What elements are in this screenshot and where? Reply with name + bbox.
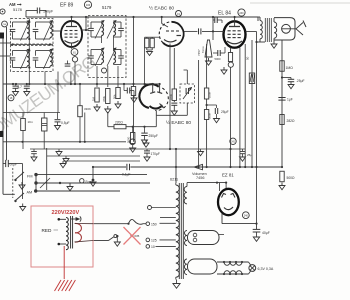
svg-text:6,3V 0,3A: 6,3V 0,3A xyxy=(258,267,274,271)
svg-text:170μF: 170μF xyxy=(151,152,160,156)
svg-text:RED: RED xyxy=(42,228,53,233)
svg-text:7457: 7457 xyxy=(197,49,201,56)
svg-text:250μF: 250μF xyxy=(149,134,158,138)
svg-text:FM: FM xyxy=(27,175,32,179)
svg-text:240: 240 xyxy=(244,215,249,218)
svg-text:470k: 470k xyxy=(169,93,173,100)
svg-text:1μF: 1μF xyxy=(287,98,293,102)
svg-text:6211: 6211 xyxy=(170,178,178,182)
svg-text:EF 89: EF 89 xyxy=(60,3,74,9)
svg-text:470k: 470k xyxy=(102,95,106,102)
svg-text:125: 125 xyxy=(151,239,157,243)
svg-text:282Ω: 282Ω xyxy=(287,119,296,123)
svg-text:240: 240 xyxy=(239,12,244,15)
svg-text:7456: 7456 xyxy=(196,176,204,180)
svg-text:1Kn: 1Kn xyxy=(28,120,34,124)
svg-text:.25μF: .25μF xyxy=(296,79,305,83)
svg-text:1MΩ: 1MΩ xyxy=(286,66,294,70)
svg-text:100: 100 xyxy=(86,3,91,7)
svg-text:500Ω: 500Ω xyxy=(287,176,296,180)
svg-text:5000: 5000 xyxy=(215,57,221,61)
svg-text:Tono: Tono xyxy=(201,46,205,53)
svg-text:25μ: 25μ xyxy=(247,153,252,157)
svg-text:330K: 330K xyxy=(84,107,91,111)
svg-text:5179: 5179 xyxy=(102,5,112,10)
svg-text:100k: 100k xyxy=(208,91,212,98)
svg-text:½ EABC 80: ½ EABC 80 xyxy=(166,119,191,126)
svg-text:10: 10 xyxy=(151,245,155,249)
svg-text:5178: 5178 xyxy=(13,7,23,12)
svg-text:EZ 81: EZ 81 xyxy=(222,173,234,178)
svg-text:EL 84: EL 84 xyxy=(218,11,231,17)
svg-text:40μF: 40μF xyxy=(262,231,270,235)
svg-text:220V/220V: 220V/220V xyxy=(52,210,80,216)
svg-text:½ EABC 80: ½ EABC 80 xyxy=(149,5,174,12)
svg-text:1M: 1M xyxy=(92,96,96,101)
svg-text:220Ω: 220Ω xyxy=(115,121,123,125)
svg-text:0,5μF: 0,5μF xyxy=(61,121,70,125)
svg-text:25μF: 25μF xyxy=(221,110,229,114)
svg-text:150: 150 xyxy=(151,223,157,227)
svg-text:50: 50 xyxy=(246,56,250,60)
svg-text:500k: 500k xyxy=(208,112,212,119)
svg-text:AM: AM xyxy=(27,191,33,195)
svg-text:50k: 50k xyxy=(113,94,117,99)
svg-text:Fono: Fono xyxy=(86,180,94,184)
